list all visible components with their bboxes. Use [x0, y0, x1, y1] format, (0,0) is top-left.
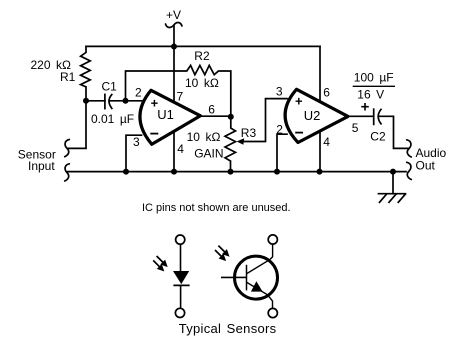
svg-text:C2: C2 [370, 130, 386, 144]
svg-text:Input: Input [28, 159, 55, 173]
svg-text:2: 2 [276, 122, 283, 136]
svg-text:2: 2 [135, 86, 142, 100]
svg-text:C1: C1 [102, 80, 118, 94]
svg-text:U1: U1 [157, 107, 174, 122]
svg-text:7: 7 [177, 89, 184, 103]
svg-text:6: 6 [323, 85, 330, 99]
svg-text:5: 5 [352, 121, 359, 135]
svg-text:+V: +V [166, 8, 181, 22]
svg-text:4: 4 [323, 135, 330, 149]
svg-text:10 kΩ: 10 kΩ [185, 76, 219, 90]
svg-text:Typical Sensors: Typical Sensors [179, 321, 277, 336]
svg-text:100 µF: 100 µF [354, 71, 394, 85]
svg-text:0.01 µF: 0.01 µF [91, 112, 134, 126]
svg-text:U2: U2 [304, 108, 321, 123]
svg-text:+: + [295, 93, 303, 108]
svg-text:6: 6 [208, 102, 215, 116]
svg-text:3: 3 [133, 135, 140, 149]
svg-text:4: 4 [177, 142, 184, 156]
svg-text:R1: R1 [60, 70, 76, 84]
svg-text:GAIN: GAIN [194, 146, 223, 160]
svg-text:R2: R2 [194, 49, 210, 63]
svg-text:Out: Out [416, 159, 436, 173]
svg-text:3: 3 [276, 84, 283, 98]
svg-text:IC pins not shown are unused.: IC pins not shown are unused. [142, 202, 291, 214]
svg-text:R3: R3 [241, 126, 257, 140]
svg-text:+: + [361, 98, 370, 115]
svg-text:+: + [151, 95, 159, 110]
svg-text:10 kΩ: 10 kΩ [187, 130, 221, 144]
